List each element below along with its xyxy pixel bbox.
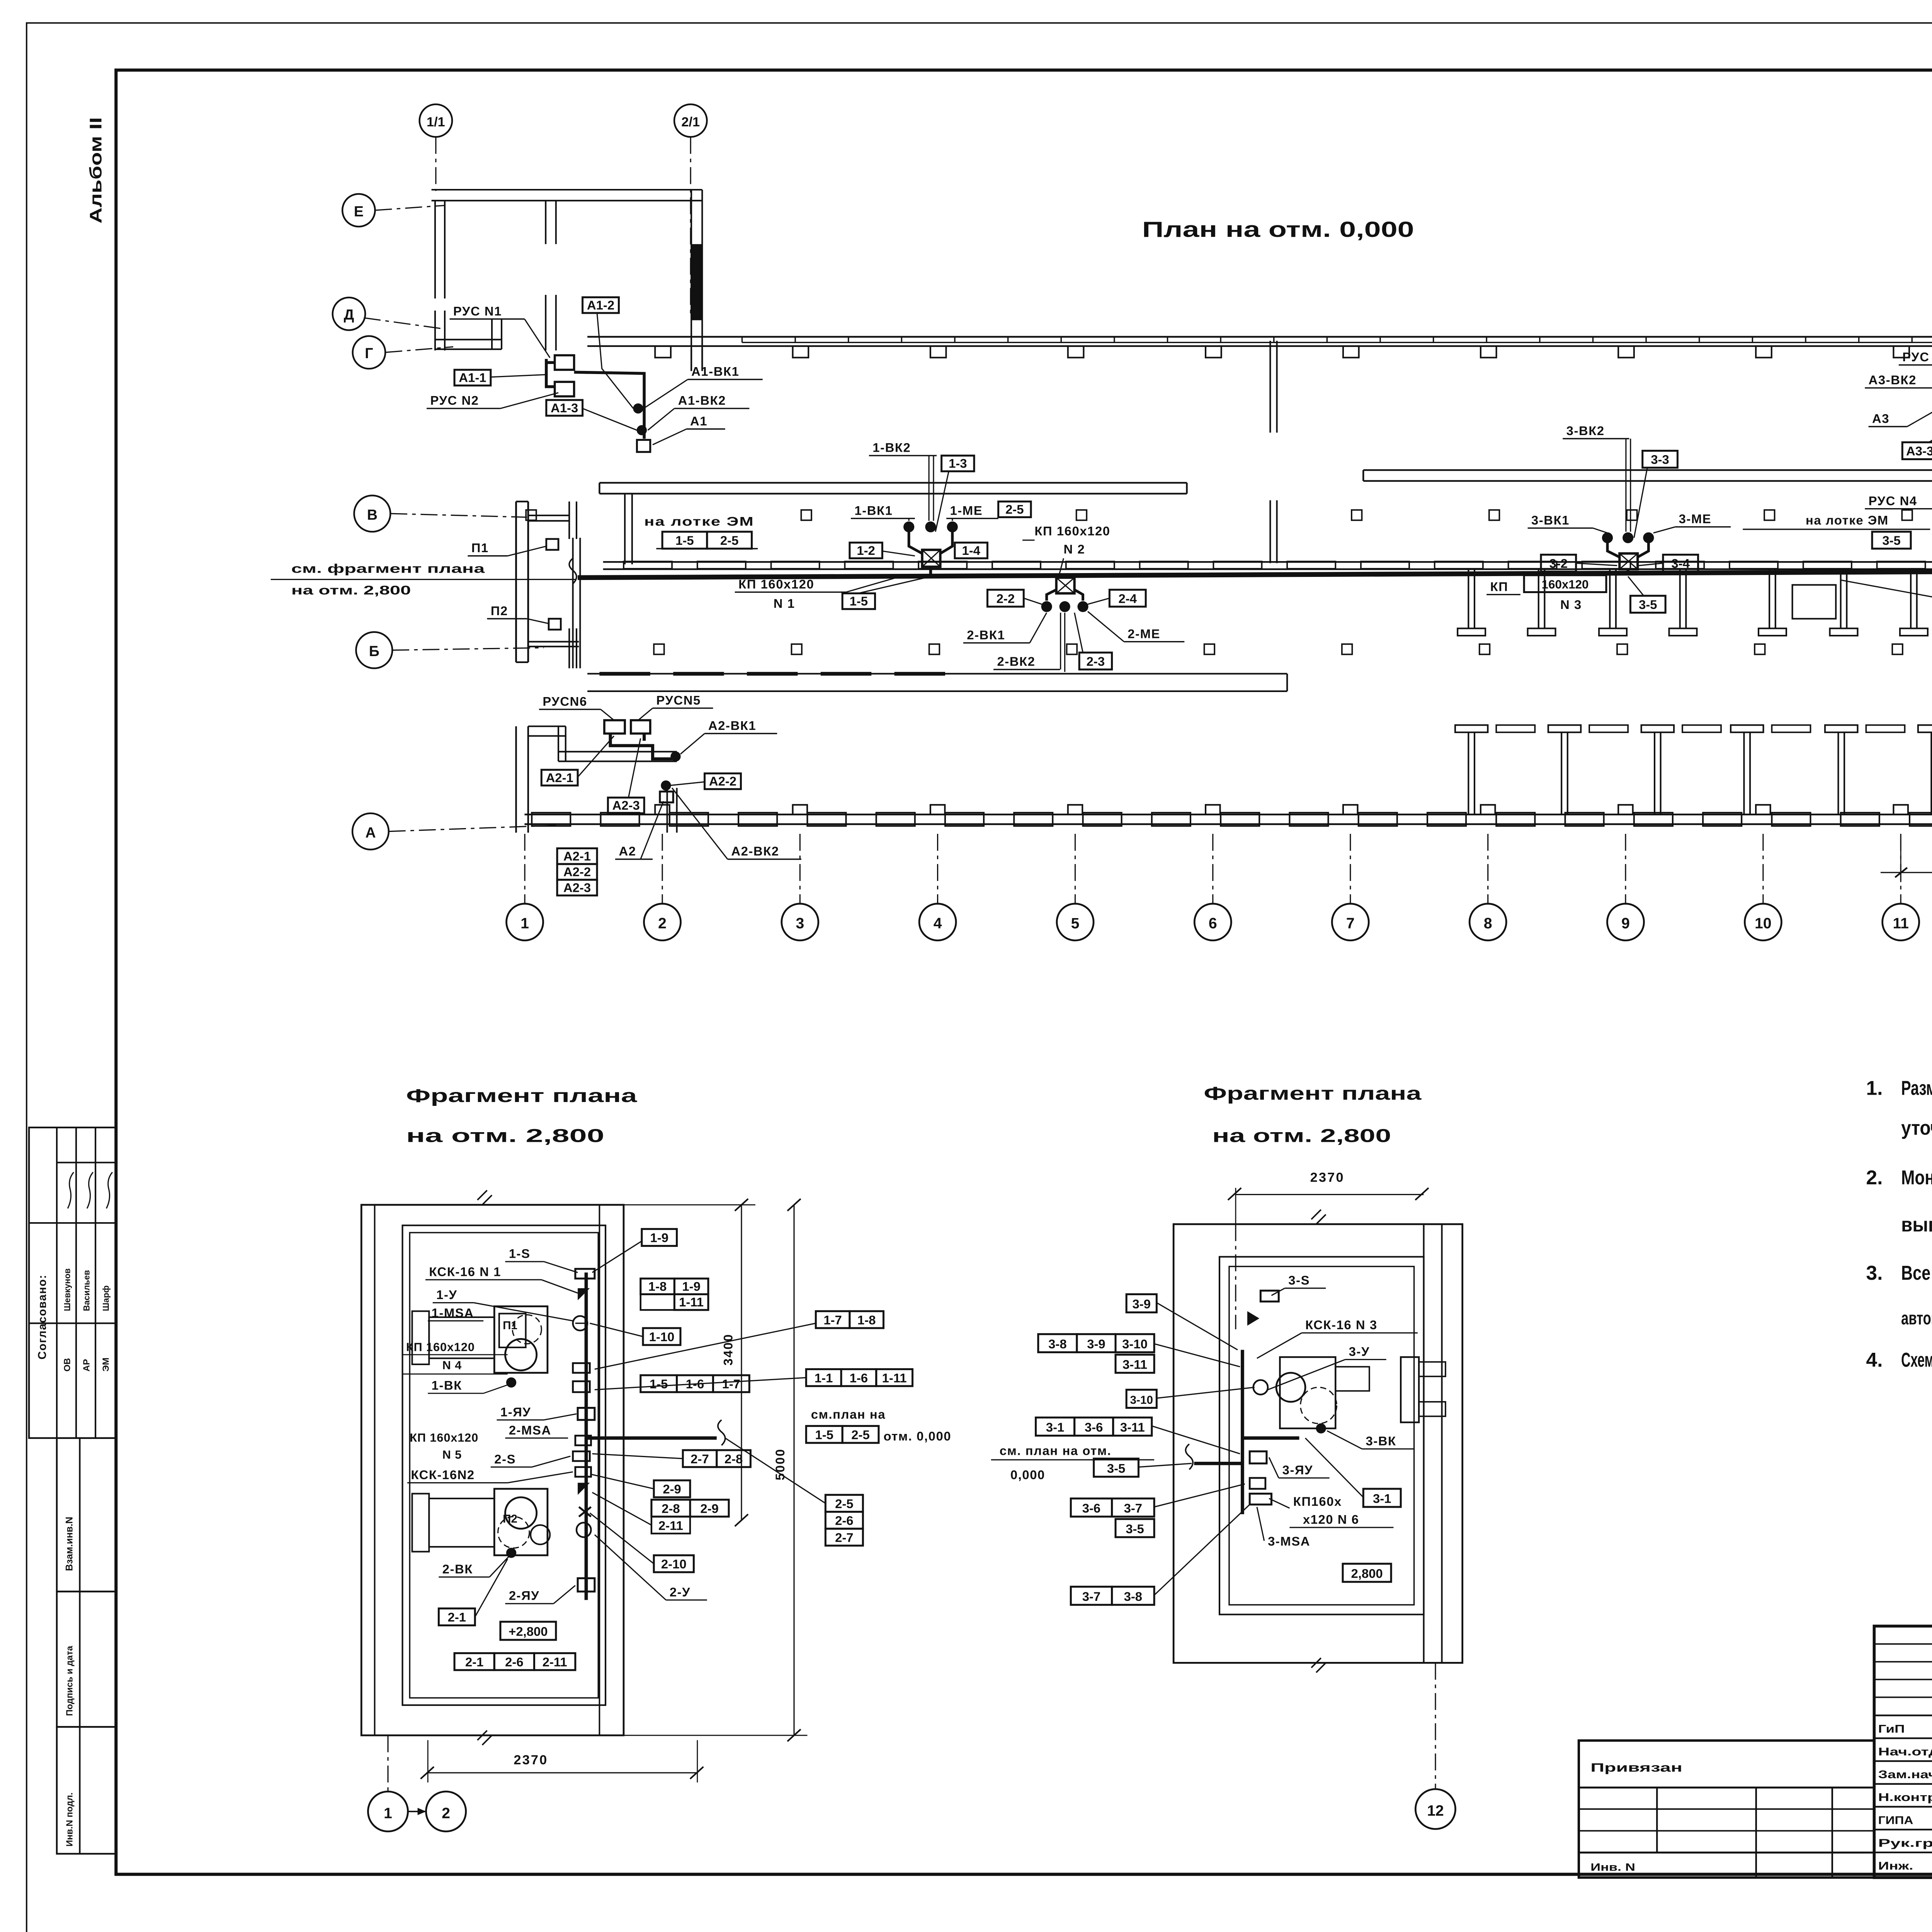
- device A2-VK1 dot: [670, 752, 680, 762]
- fragment2 label box 3-11: [1116, 1355, 1154, 1373]
- svg-text:3-МSА: 3-МSА: [1268, 1534, 1310, 1548]
- svg-text:А2-2: А2-2: [563, 865, 591, 879]
- label box 3-2: [1541, 555, 1576, 572]
- window hatches on row V wall: [624, 561, 672, 569]
- svg-text:Инв. N: Инв. N: [1590, 1861, 1635, 1873]
- svg-text:2-9: 2-9: [663, 1482, 681, 1496]
- svg-text:2-1: 2-1: [465, 1655, 483, 1669]
- svg-text:3-ВК: 3-ВК: [1366, 1434, 1396, 1448]
- svg-text:3-7: 3-7: [1082, 1589, 1100, 1604]
- svg-text:3-МЕ: 3-МЕ: [1679, 512, 1712, 526]
- label boxes 1-5 2-5: [662, 532, 707, 549]
- P1 intake box: [546, 539, 558, 550]
- svg-text:А2-ВК1: А2-ВК1: [708, 718, 756, 733]
- RUS N2 cabinet: [555, 382, 574, 396]
- svg-text:1-У: 1-У: [436, 1287, 457, 1302]
- label box A2-2: [705, 774, 741, 789]
- device A1-VK1 dot: [633, 403, 643, 413]
- svg-text:3-10: 3-10: [1130, 1394, 1153, 1406]
- svg-text:2-ВК: 2-ВК: [442, 1562, 473, 1576]
- fragment1 label box 2-1: [439, 1609, 475, 1626]
- label box 1-3: [942, 456, 974, 471]
- fragment2 axis circle 12: [1435, 1663, 1436, 1788]
- wall row G long top wall: [587, 337, 1932, 337]
- axis circle V: [354, 495, 390, 532]
- axis line A: [389, 825, 556, 832]
- svg-text:уточнить при монтаже.: уточнить при монтаже.: [1901, 1117, 1932, 1139]
- svg-text:выполнить согласно СНиП III: выполнить согласно СНиП III 0570-85: [1901, 1213, 1932, 1236]
- label box 3-4: [1663, 555, 1698, 572]
- svg-text:N 1: N 1: [774, 596, 795, 611]
- cable duct KP main run: [578, 571, 1932, 578]
- svg-text:на лотке ЭМ: на лотке ЭМ: [644, 514, 754, 528]
- svg-text:2-6: 2-6: [835, 1514, 853, 1528]
- fragment2 dashed line: [1242, 1438, 1280, 1439]
- column tabs below row G wall: [655, 346, 671, 358]
- RUS N5 cabinet: [631, 720, 650, 733]
- fragment1 label boxes 2-8 2-9: [651, 1500, 690, 1517]
- svg-text:1-МSА: 1-МSА: [432, 1306, 474, 1320]
- svg-text:РУСN5: РУСN5: [656, 693, 701, 707]
- svg-text:2-11: 2-11: [543, 1655, 567, 1669]
- RUS room bottom wall: [435, 339, 502, 340]
- svg-text:РУС N1: РУС N1: [453, 304, 502, 318]
- axis circle B: [356, 632, 392, 668]
- svg-text:3: 3: [796, 915, 804, 932]
- svg-text:КП 160х120: КП 160х120: [738, 577, 814, 591]
- axis circle 1/1: [420, 104, 452, 137]
- fragment1 dimension 3400: [624, 1204, 755, 1205]
- label box 2-5 top: [998, 502, 1031, 517]
- fragment1 label boxes 2-1 2-6 2-11: [454, 1653, 494, 1670]
- svg-text:А1-3: А1-3: [551, 401, 578, 415]
- label box 3-5 mid: [1630, 596, 1665, 613]
- fragment2 label box 3-10: [1126, 1390, 1156, 1408]
- fragment1 heavy link to seeplan: [586, 1437, 717, 1439]
- svg-text:2-2: 2-2: [997, 591, 1015, 605]
- svg-text:КП: КП: [1490, 579, 1509, 594]
- svg-text:2,800: 2,800: [1351, 1566, 1383, 1581]
- svg-text:А3-ВК2: А3-ВК2: [1869, 373, 1917, 387]
- svg-text:3-ВК2: 3-ВК2: [1566, 423, 1605, 438]
- dimension 6000: [1900, 834, 1901, 882]
- svg-text:6: 6: [1209, 915, 1217, 932]
- svg-text:Размещение электрических и т: Размещение электрических и трубных прово…: [1901, 1077, 1932, 1099]
- svg-text:А: А: [365, 824, 376, 840]
- dividing wall zone 1-3 upper: [1270, 341, 1270, 433]
- svg-text:1-5: 1-5: [815, 1427, 833, 1442]
- svg-text:3-8: 3-8: [1048, 1337, 1066, 1351]
- svg-text:2-7: 2-7: [835, 1530, 853, 1544]
- axis circle A: [352, 813, 389, 850]
- fragment1 label boxes 2-7 2-8: [683, 1450, 717, 1467]
- svg-text:П1: П1: [471, 541, 489, 555]
- svg-text:1: 1: [520, 915, 529, 932]
- fragment2 label boxes 3-7 3-8: [1071, 1587, 1112, 1605]
- svg-text:А2-3: А2-3: [612, 798, 640, 813]
- svg-text:9: 9: [1621, 915, 1630, 932]
- tee wall at corridor stub: [569, 502, 570, 539]
- wall left end of building: [516, 502, 517, 662]
- svg-text:2-ЯУ: 2-ЯУ: [509, 1588, 539, 1603]
- small room upper right: [1793, 585, 1836, 619]
- svg-text:А2-3: А2-3: [563, 880, 591, 895]
- svg-text:А2-2: А2-2: [709, 774, 736, 788]
- svg-text:3-8: 3-8: [1124, 1589, 1142, 1604]
- label box 2-3: [1079, 653, 1112, 670]
- svg-text:+2,800: +2,800: [509, 1624, 548, 1639]
- fragment1 label box 2-11: [651, 1517, 690, 1534]
- label box A1-1: [454, 370, 491, 386]
- svg-text:отм. 0,000: отм. 0,000: [883, 1429, 951, 1443]
- svg-text:Н.контр.: Н.контр.: [1878, 1791, 1932, 1804]
- svg-text:2-5: 2-5: [720, 533, 738, 548]
- title block stamp table: [1874, 1626, 1932, 1878]
- fragment2 machine dot: [1316, 1423, 1326, 1434]
- svg-text:2-6: 2-6: [505, 1655, 523, 1669]
- svg-text:А1-1: А1-1: [459, 371, 486, 385]
- svg-text:А1-ВК2: А1-ВК2: [678, 393, 726, 408]
- svg-text:РУС N2: РУС N2: [430, 393, 479, 408]
- label box A1-2: [583, 297, 619, 313]
- svg-text:Привязан: Привязан: [1590, 1761, 1682, 1774]
- wall stub below protrusion: [691, 349, 692, 371]
- cable run A1: [546, 359, 555, 387]
- fragment1 P1 dot: [506, 1378, 516, 1388]
- wall row B stub left: [528, 641, 579, 642]
- lintel bars lower right section: [1496, 725, 1535, 732]
- svg-text:КСК-16N2: КСК-16N2: [411, 1468, 474, 1482]
- fragment2 label boxes 3-8 3-9 3-10: [1038, 1334, 1077, 1352]
- privyazan annex table: [1579, 1740, 1874, 1878]
- label box A1-3: [546, 400, 583, 416]
- svg-text:на отм. 2,800: на отм. 2,800: [406, 1125, 604, 1146]
- svg-text:1: 1: [384, 1805, 392, 1821]
- svg-text:1-5: 1-5: [850, 594, 868, 608]
- fragment2 break marks: [1311, 1210, 1326, 1225]
- fragment1 left machines: [429, 1317, 494, 1358]
- svg-text:3-2: 3-2: [1549, 556, 1568, 571]
- svg-text:2-5: 2-5: [835, 1497, 853, 1511]
- svg-text:3-S: 3-S: [1288, 1273, 1310, 1287]
- label box A2-1: [541, 770, 578, 786]
- svg-text:1-9: 1-9: [682, 1279, 700, 1293]
- svg-text:1-ЯУ: 1-ЯУ: [500, 1405, 531, 1419]
- svg-text:КП 160х120: КП 160х120: [410, 1431, 478, 1444]
- svg-text:N 3: N 3: [1560, 597, 1582, 612]
- axis circle D: [333, 298, 365, 330]
- svg-text:Е: Е: [354, 203, 364, 219]
- wall annex A2 right opening: [667, 788, 668, 833]
- cable run annex: [611, 733, 672, 759]
- svg-text:РУС N4: РУС N4: [1869, 493, 1917, 508]
- svg-text:1-8: 1-8: [648, 1279, 667, 1293]
- junction 1: [909, 532, 922, 553]
- svg-text:1/1: 1/1: [427, 115, 445, 129]
- fragment1 label box 1-9: [642, 1229, 677, 1246]
- svg-text:КСК-16 N 3: КСК-16 N 3: [1305, 1318, 1378, 1332]
- fragment1 devices on riser: [575, 1269, 595, 1279]
- svg-text:3400: 3400: [721, 1333, 735, 1366]
- tee wall at B stub: [569, 628, 570, 668]
- fragment1 label boxes 2-5 2-6 2-7 stack: [825, 1495, 863, 1512]
- partition stub at band left: [624, 493, 625, 565]
- svg-text:см. план на отм.: см. план на отм.: [1000, 1443, 1112, 1458]
- label box A2-3: [608, 798, 644, 813]
- svg-text:В: В: [367, 507, 378, 523]
- svg-text:1-10: 1-10: [649, 1330, 675, 1344]
- svg-text:2: 2: [658, 915, 667, 932]
- label box 1-5 lower: [842, 594, 875, 609]
- RUS N6 cabinet: [604, 720, 625, 733]
- axis line 1/1: [435, 137, 436, 191]
- feeding table band right: [1363, 470, 1932, 471]
- svg-text:2-4: 2-4: [1119, 591, 1137, 605]
- svg-text:2-У: 2-У: [670, 1585, 690, 1599]
- svg-text:2-МSА: 2-МSА: [509, 1423, 551, 1437]
- svg-text:4: 4: [934, 915, 942, 932]
- svg-text:7: 7: [1346, 915, 1355, 932]
- svg-text:2/1: 2/1: [681, 115, 700, 129]
- svg-text:2-3: 2-3: [1087, 654, 1105, 668]
- axis line V: [390, 514, 527, 517]
- svg-text:2-ВК1: 2-ВК1: [967, 628, 1005, 642]
- svg-text:2-ВК2: 2-ВК2: [997, 654, 1035, 668]
- window ticks row G: [742, 337, 742, 343]
- svg-text:1-8: 1-8: [857, 1313, 876, 1327]
- fragment1 axis circles 1 2: [388, 1735, 388, 1791]
- fragment2 label box 2800: [1343, 1564, 1391, 1582]
- bottom axis circles: [507, 904, 543, 940]
- svg-text:Шевкунов: Шевкунов: [62, 1269, 72, 1311]
- svg-text:ГИПА: ГИПА: [1878, 1814, 1913, 1827]
- window sill line row G: [742, 342, 1932, 343]
- svg-text:3-9: 3-9: [1133, 1297, 1151, 1311]
- svg-text:Инв.N подл.: Инв.N подл.: [65, 1793, 75, 1847]
- svg-text:N 5: N 5: [442, 1448, 462, 1461]
- axis line D: [364, 318, 442, 329]
- wall row A bottom wall: [524, 814, 1932, 815]
- label box A3-3: [1902, 442, 1932, 459]
- wall annex A2 left: [516, 726, 517, 833]
- svg-text:1-3: 1-3: [949, 456, 967, 471]
- svg-text:11: 11: [1893, 915, 1909, 932]
- svg-text:АР: АР: [81, 1359, 91, 1372]
- svg-text:Все нормально нетоковедущие: Все нормально нетоковедущие части средст…: [1901, 1262, 1932, 1284]
- fragment1 label boxes 1-5 1-6 1-7: [641, 1375, 677, 1392]
- wall right of protrusion on axis 2/1: [691, 190, 692, 371]
- svg-text:А2: А2: [619, 844, 636, 858]
- svg-text:А2-ВК2: А2-ВК2: [731, 844, 779, 858]
- svg-text:3-ВК1: 3-ВК1: [1531, 513, 1570, 527]
- svg-text:Рук.гр.: Рук.гр.: [1878, 1837, 1932, 1849]
- svg-text:3-1: 3-1: [1046, 1420, 1064, 1434]
- svg-text:1-5: 1-5: [675, 533, 694, 548]
- svg-text:ЭМ: ЭМ: [101, 1357, 111, 1371]
- svg-text:4.: 4.: [1866, 1349, 1883, 1371]
- svg-text:Фрагмент плана: Фрагмент плана: [406, 1085, 638, 1106]
- svg-text:2-1: 2-1: [448, 1610, 466, 1624]
- svg-text:А2-1: А2-1: [563, 849, 591, 863]
- svg-text:1-ВК2: 1-ВК2: [872, 440, 911, 455]
- fragment2 label box 3-1 right: [1363, 1489, 1401, 1507]
- fragment2 heavy riser: [1242, 1350, 1243, 1514]
- fragment2 label boxes 3-1 3-6 3-11: [1036, 1418, 1075, 1436]
- svg-text:8: 8: [1484, 915, 1492, 932]
- svg-text:А1-2: А1-2: [587, 298, 614, 312]
- device A2-VK2 dot: [661, 781, 671, 791]
- trough band left zone: [587, 673, 1287, 674]
- device A1-VK2 dot: [637, 425, 647, 435]
- svg-text:1.: 1.: [1866, 1077, 1883, 1099]
- fragment1 outer walls: [361, 1205, 624, 1735]
- fragment1 inner room: [403, 1225, 605, 1705]
- svg-text:2-МЕ: 2-МЕ: [1128, 626, 1160, 641]
- svg-text:П2: П2: [491, 604, 508, 618]
- devices 3 dots: [1602, 532, 1613, 543]
- trough band hatch bars: [599, 672, 650, 676]
- svg-text:N 2: N 2: [1064, 542, 1085, 556]
- svg-text:2-8: 2-8: [724, 1452, 743, 1466]
- wall inner vertical near left end: [573, 538, 573, 668]
- fragment1 label box 1-10: [643, 1328, 680, 1345]
- wall row V long corridor wall: [603, 561, 1932, 562]
- svg-text:3-9: 3-9: [1087, 1337, 1105, 1351]
- svg-text:1-1: 1-1: [815, 1371, 833, 1385]
- stamp upper empty rows: [1874, 1644, 1932, 1645]
- fragment1 label box 2-10: [654, 1555, 694, 1572]
- svg-text:2-11: 2-11: [658, 1518, 683, 1532]
- left margin approval table: [29, 1128, 116, 1438]
- svg-text:Г: Г: [365, 345, 373, 361]
- label box 2-4: [1109, 590, 1146, 607]
- label boxes A2 list: [557, 848, 597, 864]
- label box 2-2: [987, 590, 1024, 607]
- svg-text:1-5: 1-5: [650, 1377, 668, 1391]
- svg-text:1-ВК1: 1-ВК1: [854, 503, 893, 517]
- label box 1-4: [955, 543, 987, 558]
- svg-text:1-4: 1-4: [962, 543, 980, 558]
- svg-text:1-9: 1-9: [650, 1231, 668, 1245]
- svg-text:Нач.отд: Нач.отд: [1878, 1746, 1932, 1758]
- svg-text:N 4: N 4: [442, 1359, 462, 1372]
- svg-text:3-5: 3-5: [1639, 597, 1657, 612]
- svg-text:см. фрагмент плана: см. фрагмент плана: [291, 561, 485, 575]
- axis line G: [385, 347, 453, 352]
- svg-text:КСК-16 N 1: КСК-16 N 1: [429, 1265, 501, 1279]
- partitions upper right section: [1468, 569, 1469, 628]
- axis circle G: [353, 336, 385, 369]
- svg-text:5000: 5000: [773, 1448, 787, 1480]
- svg-text:2-5: 2-5: [1005, 502, 1024, 516]
- fragment2 label box 3-5 low: [1116, 1519, 1154, 1537]
- label box 3-3: [1643, 451, 1678, 468]
- wall annex A2 top: [528, 726, 566, 727]
- svg-text:х120 N 6: х120 N 6: [1303, 1512, 1359, 1527]
- fragment2 outer walls: [1173, 1224, 1463, 1663]
- svg-text:Согласовано:: Согласовано:: [36, 1274, 49, 1359]
- svg-text:на отм. 2,800: на отм. 2,800: [1212, 1125, 1391, 1146]
- svg-text:КП160х: КП160х: [1293, 1494, 1342, 1509]
- svg-text:РУС N3: РУС N3: [1902, 350, 1932, 364]
- junction 2: [1056, 578, 1075, 594]
- svg-text:КП 160х120: КП 160х120: [406, 1341, 475, 1354]
- device A2 box: [660, 791, 673, 802]
- svg-text:Д: Д: [344, 306, 354, 323]
- svg-text:Монтаж приборов и средств: Монтаж приборов и средств автоматизации: [1901, 1166, 1932, 1189]
- svg-text:2-7: 2-7: [690, 1452, 709, 1466]
- P2 intake box: [549, 619, 561, 629]
- svg-text:3-6: 3-6: [1085, 1420, 1103, 1434]
- svg-text:1-МЕ: 1-МЕ: [950, 503, 983, 517]
- svg-text:3-10: 3-10: [1122, 1337, 1148, 1351]
- window rects on row A wall: [532, 813, 570, 826]
- svg-text:1-2: 1-2: [857, 543, 875, 558]
- svg-text:ГиП: ГиП: [1878, 1723, 1905, 1735]
- svg-text:Альбом II: Альбом II: [87, 117, 105, 223]
- svg-text:12: 12: [1427, 1803, 1444, 1819]
- fragment1 label box 2-9: [654, 1480, 690, 1497]
- fragment1 label boxes 1-7 1-8: [816, 1311, 850, 1328]
- svg-text:А1: А1: [690, 414, 707, 428]
- svg-text:2-9: 2-9: [700, 1501, 718, 1515]
- dividing wall zone 1-3 lower: [1270, 500, 1270, 563]
- svg-text:1-11: 1-11: [882, 1371, 907, 1385]
- fragment1 label boxes 1-1 1-6 1-11: [806, 1369, 841, 1386]
- svg-text:3-7: 3-7: [1124, 1501, 1142, 1515]
- svg-text:2-8: 2-8: [662, 1501, 680, 1515]
- svg-text:План на отм. 0,000: План на отм. 0,000: [1142, 217, 1414, 241]
- svg-text:3-ЯУ: 3-ЯУ: [1282, 1463, 1313, 1477]
- axis circle 2/1: [674, 104, 707, 137]
- svg-text:3.: 3.: [1866, 1262, 1883, 1284]
- svg-text:А3: А3: [1872, 412, 1889, 426]
- fragment1 heavy riser: [586, 1272, 587, 1600]
- svg-text:Взам.инв.N: Взам.инв.N: [64, 1517, 75, 1571]
- stamp person rows: [1874, 1715, 1932, 1716]
- svg-text:3-3: 3-3: [1651, 452, 1669, 467]
- svg-text:5: 5: [1071, 915, 1080, 932]
- svg-text:1-11: 1-11: [679, 1295, 704, 1309]
- svg-text:1-6: 1-6: [850, 1371, 868, 1385]
- svg-text:2370: 2370: [514, 1753, 548, 1767]
- svg-text:на отм. 2,800: на отм. 2,800: [291, 583, 411, 597]
- fragment2 inner walls: [1219, 1257, 1424, 1615]
- wall row E top of protrusion: [432, 189, 702, 190]
- axis circle E: [342, 194, 375, 226]
- svg-text:1-S: 1-S: [509, 1247, 531, 1261]
- svg-text:3-5: 3-5: [1882, 533, 1900, 548]
- label box 3-5 right: [1872, 532, 1911, 549]
- svg-text:10: 10: [1755, 915, 1771, 932]
- svg-text:2-10: 2-10: [661, 1557, 687, 1571]
- svg-text:2370: 2370: [1310, 1170, 1345, 1185]
- svg-text:КП 160х120: КП 160х120: [1034, 524, 1110, 538]
- wall mid vertical in protrusion: [545, 201, 546, 244]
- RUS N1 cabinet: [555, 355, 574, 370]
- svg-text:0,000: 0,000: [1010, 1468, 1045, 1482]
- svg-text:3-5: 3-5: [1107, 1461, 1125, 1475]
- svg-text:3-У: 3-У: [1349, 1344, 1370, 1359]
- fragment1 label box +2800: [500, 1622, 556, 1640]
- svg-text:Фрагмент плана: Фрагмент плана: [1204, 1083, 1422, 1104]
- svg-text:Подпись и дата: Подпись и дата: [65, 1645, 75, 1716]
- svg-text:на лотке ЭМ: на лотке ЭМ: [1806, 513, 1889, 527]
- axis line E: [375, 206, 445, 211]
- svg-text:Б: Б: [369, 643, 379, 659]
- axis line B: [392, 648, 544, 650]
- column squares row V hall: [526, 510, 536, 520]
